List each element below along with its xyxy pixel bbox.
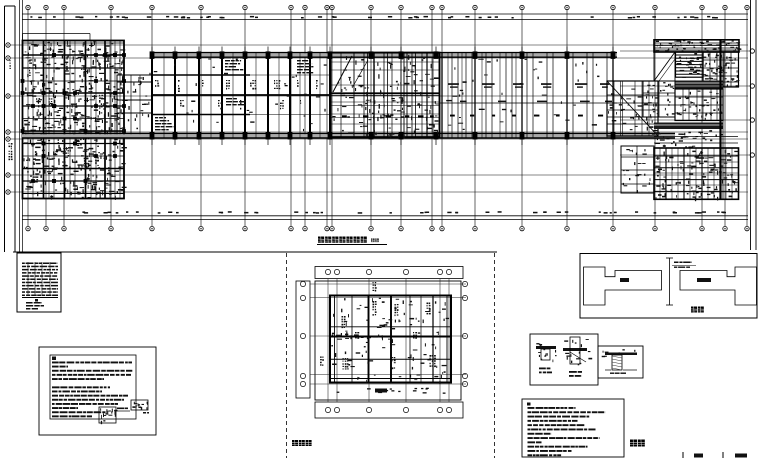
notes box 1 small detail A — [99, 407, 130, 424]
dashed separator left — [286, 253, 288, 458]
right wing stair diagonal — [654, 52, 675, 81]
small plan caption — [292, 440, 298, 446]
wing B annotations — [154, 57, 327, 131]
right wing mid beam band — [675, 81, 723, 90]
main plan caption — [317, 237, 387, 245]
right wing lower block — [654, 148, 739, 201]
wing B bottom chord (gray band) — [22, 133, 675, 138]
wing B columns and beams — [150, 47, 616, 146]
small plan bottom bubble strip — [315, 402, 463, 418]
lower sheet divider line — [13, 251, 497, 253]
key plan caption — [691, 307, 697, 313]
stair block — [331, 53, 440, 139]
wing A annotations — [21, 41, 128, 200]
detail box right — [598, 346, 643, 378]
sheet right border — [751, 0, 757, 250]
right wing lower-left annex — [621, 146, 654, 193]
wing A beam grid (left dense block) — [23, 34, 125, 199]
notes box 1 — [39, 347, 156, 435]
detail sheet caption — [630, 440, 637, 447]
top dimension lines — [22, 14, 748, 20]
right wing lower beam band — [654, 123, 738, 149]
notes box 1 small detail B — [131, 400, 149, 414]
right wing top dark band — [654, 40, 741, 53]
bottom edge title block marks — [683, 452, 747, 458]
detail box left — [530, 334, 598, 385]
small plan left bubble strip — [296, 281, 310, 398]
row grid lines with bubbles — [6, 43, 755, 194]
column grid lines with bubbles — [26, 5, 749, 231]
wing B right bays — [440, 53, 617, 138]
wing B top chord (gray band) — [150, 53, 617, 58]
sheet left border — [5, 0, 23, 252]
bottom dimension lines — [22, 211, 748, 219]
legend table — [17, 253, 61, 312]
right wing middle cells — [675, 89, 723, 121]
small plan top bubble strip — [315, 267, 463, 279]
right wing upper-right cells — [703, 52, 740, 87]
key plan box — [580, 254, 757, 319]
dashed separator right — [494, 253, 496, 458]
notes box 2 — [522, 399, 624, 457]
small plan body — [310, 279, 466, 402]
key plan dimension line — [666, 258, 696, 305]
connector block with diagonal — [607, 81, 660, 136]
right wing left annex cells — [643, 81, 676, 117]
small plan annotations — [320, 282, 449, 394]
key plan right building outline — [680, 267, 757, 305]
small plan right bubbles — [462, 281, 467, 386]
right wing heavy column line — [721, 40, 724, 199]
right wing striped block — [676, 52, 707, 78]
wing A3 extension cells — [112, 72, 152, 135]
key plan left building outline — [584, 267, 662, 305]
